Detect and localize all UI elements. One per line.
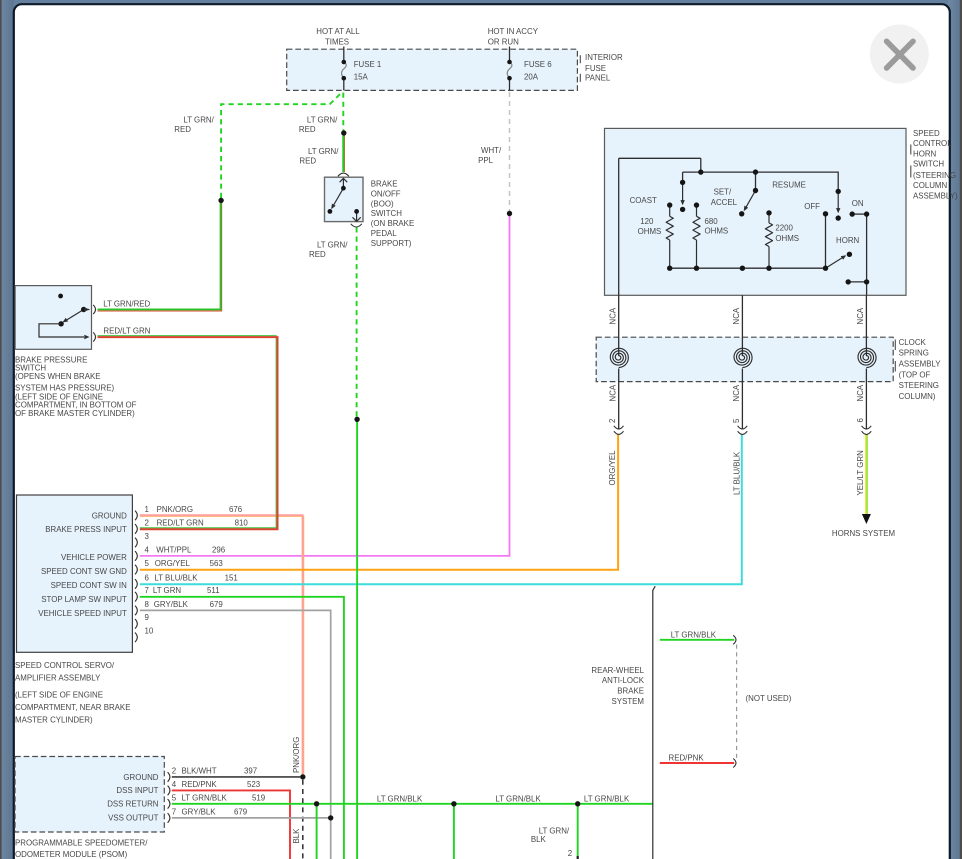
- svg-text:PNK/ORG: PNK/ORG: [292, 737, 301, 773]
- svg-text:NCA: NCA: [856, 307, 865, 324]
- svg-text:(OPENS WHEN BRAKE: (OPENS WHEN BRAKE: [15, 372, 101, 381]
- svg-text:COAST: COAST: [630, 196, 657, 205]
- svg-text:PNK/ORG: PNK/ORG: [157, 505, 193, 514]
- svg-text:NCA: NCA: [608, 307, 617, 324]
- svg-text:(LEFT SIDE OF ENGINE: (LEFT SIDE OF ENGINE: [15, 690, 103, 699]
- svg-text:6: 6: [145, 573, 150, 582]
- svg-text:GROUND: GROUND: [123, 773, 158, 782]
- svg-text:SPEED CONT SW IN: SPEED CONT SW IN: [51, 581, 127, 590]
- svg-text:ANTI-LOCK: ANTI-LOCK: [602, 676, 645, 685]
- svg-text:YEL/LT GRN: YEL/LT GRN: [856, 450, 865, 496]
- svg-text:SPEED CONT SW GND: SPEED CONT SW GND: [41, 567, 127, 576]
- svg-text:GRY/BLK: GRY/BLK: [154, 600, 189, 609]
- svg-text:RESUME: RESUME: [772, 180, 806, 189]
- svg-text:COLUMN: COLUMN: [913, 181, 947, 190]
- svg-text:151: 151: [225, 573, 238, 582]
- svg-text:523: 523: [247, 780, 261, 789]
- svg-text:SUPPORT): SUPPORT): [371, 239, 412, 248]
- svg-text:RED: RED: [174, 125, 191, 134]
- svg-text:RED: RED: [309, 250, 326, 259]
- svg-text:5: 5: [145, 559, 150, 568]
- svg-text:HORNS SYSTEM: HORNS SYSTEM: [832, 529, 895, 538]
- svg-text:3: 3: [145, 532, 150, 541]
- svg-text:20A: 20A: [524, 72, 539, 81]
- svg-text:FUSE 1: FUSE 1: [354, 60, 382, 69]
- svg-text:LT GRN/BLK: LT GRN/BLK: [495, 794, 541, 803]
- svg-text:4: 4: [145, 545, 150, 554]
- svg-text:LT GRN/BLK: LT GRN/BLK: [377, 794, 423, 803]
- svg-text:(STEERING: (STEERING: [913, 171, 956, 180]
- svg-text:NCA: NCA: [732, 384, 741, 401]
- svg-text:SWITCH: SWITCH: [371, 209, 402, 218]
- svg-text:15A: 15A: [354, 72, 369, 81]
- svg-text:679: 679: [234, 807, 248, 816]
- svg-text:VSS OUTPUT: VSS OUTPUT: [108, 814, 159, 823]
- svg-text:ON/OFF: ON/OFF: [371, 189, 401, 198]
- svg-text:511: 511: [207, 586, 220, 595]
- svg-text:4: 4: [172, 780, 177, 789]
- svg-text:LT GRN/: LT GRN/: [539, 827, 570, 836]
- svg-text:MASTER CYLINDER): MASTER CYLINDER): [15, 715, 93, 724]
- svg-text:BLK: BLK: [292, 828, 301, 844]
- svg-text:FUSE 6: FUSE 6: [524, 60, 552, 69]
- svg-text:CONTROL: CONTROL: [913, 139, 952, 148]
- svg-text:9: 9: [145, 613, 150, 622]
- svg-text:COMPARTMENT, NEAR BRAKE: COMPARTMENT, NEAR BRAKE: [15, 703, 130, 712]
- svg-text:680: 680: [705, 217, 719, 226]
- svg-text:VEHICLE POWER: VEHICLE POWER: [61, 553, 127, 562]
- svg-text:LT GRN/: LT GRN/: [317, 241, 348, 250]
- svg-text:RED/PNK: RED/PNK: [182, 780, 218, 789]
- svg-text:LT BLU/BLK: LT BLU/BLK: [732, 451, 741, 495]
- svg-text:BLK/WHT: BLK/WHT: [182, 766, 217, 775]
- svg-text:BRAKE: BRAKE: [371, 180, 398, 189]
- svg-text:679: 679: [210, 600, 224, 609]
- svg-text:NCA: NCA: [608, 384, 617, 401]
- svg-text:HOT IN ACCY: HOT IN ACCY: [488, 27, 539, 36]
- svg-text:(ON BRAKE: (ON BRAKE: [371, 219, 414, 228]
- svg-text:NCA: NCA: [732, 307, 741, 324]
- svg-text:(TOP OF: (TOP OF: [899, 370, 931, 379]
- svg-text:(BOO): (BOO): [371, 199, 394, 208]
- svg-text:RED/PNK: RED/PNK: [669, 754, 705, 763]
- svg-text:ORG/YEL: ORG/YEL: [155, 559, 191, 568]
- svg-text:SET/: SET/: [714, 187, 732, 196]
- svg-text:ON: ON: [852, 199, 864, 208]
- svg-text:1: 1: [145, 505, 149, 514]
- svg-text:COLUMN): COLUMN): [899, 392, 936, 401]
- svg-text:8: 8: [145, 600, 150, 609]
- svg-text:676: 676: [229, 505, 243, 514]
- svg-text:PANEL: PANEL: [585, 74, 611, 83]
- svg-text:2: 2: [568, 849, 572, 858]
- svg-text:STOP LAMP SW INPUT: STOP LAMP SW INPUT: [41, 595, 127, 604]
- svg-text:RED: RED: [299, 125, 316, 134]
- svg-text:SPEED CONTROL SERVO/: SPEED CONTROL SERVO/: [15, 661, 115, 670]
- svg-text:OHMS: OHMS: [775, 234, 799, 243]
- svg-text:GRY/BLK: GRY/BLK: [182, 807, 217, 816]
- svg-text:6: 6: [856, 418, 865, 423]
- svg-text:LT GRN: LT GRN: [153, 586, 182, 595]
- svg-text:563: 563: [210, 559, 224, 568]
- svg-text:AMPLIFIER ASSEMBLY: AMPLIFIER ASSEMBLY: [15, 673, 101, 682]
- svg-text:WHT/PPL: WHT/PPL: [156, 545, 192, 554]
- svg-text:OHMS: OHMS: [638, 227, 662, 236]
- svg-text:LT GRN/BLK: LT GRN/BLK: [584, 795, 630, 804]
- svg-text:LT GRN/: LT GRN/: [307, 116, 338, 125]
- svg-text:5: 5: [732, 418, 741, 423]
- svg-text:PPL: PPL: [478, 156, 494, 165]
- svg-text:OFF: OFF: [804, 202, 820, 211]
- svg-text:VEHICLE SPEED INPUT: VEHICLE SPEED INPUT: [38, 609, 127, 618]
- svg-text:HOT AT ALL: HOT AT ALL: [316, 27, 360, 36]
- svg-text:FUSE: FUSE: [585, 64, 606, 73]
- svg-text:OR RUN: OR RUN: [488, 37, 519, 46]
- svg-text:LT BLU/BLK: LT BLU/BLK: [154, 573, 198, 582]
- svg-text:HORN: HORN: [836, 236, 860, 245]
- svg-text:OHMS: OHMS: [705, 227, 729, 236]
- svg-text:LT GRN/BLK: LT GRN/BLK: [182, 793, 228, 802]
- svg-text:NCA: NCA: [856, 384, 865, 401]
- svg-text:RED/LT GRN: RED/LT GRN: [103, 327, 150, 336]
- svg-text:ASSEMBLY: ASSEMBLY: [899, 360, 942, 369]
- svg-text:CLOCK: CLOCK: [899, 338, 927, 347]
- svg-text:10: 10: [145, 627, 154, 636]
- svg-text:7: 7: [172, 807, 176, 816]
- svg-text:5: 5: [172, 793, 177, 802]
- svg-text:DSS INPUT: DSS INPUT: [116, 786, 158, 795]
- svg-text:LT GRN/RED: LT GRN/RED: [103, 299, 150, 308]
- svg-text:ODOMETER MODULE (PSOM): ODOMETER MODULE (PSOM): [15, 850, 128, 859]
- svg-text:PEDAL: PEDAL: [371, 229, 397, 238]
- svg-text:RED: RED: [299, 156, 316, 165]
- svg-text:296: 296: [212, 545, 226, 554]
- svg-text:GROUND: GROUND: [92, 512, 127, 521]
- svg-text:OF BRAKE MASTER CYLINDER): OF BRAKE MASTER CYLINDER): [15, 409, 135, 418]
- svg-text:SYSTEM: SYSTEM: [612, 697, 644, 706]
- svg-text:INTERIOR: INTERIOR: [585, 53, 623, 62]
- svg-text:ORG/YEL: ORG/YEL: [608, 450, 617, 486]
- svg-text:7: 7: [145, 586, 149, 595]
- svg-text:SWITCH: SWITCH: [913, 160, 944, 169]
- svg-text:(NOT USED): (NOT USED): [746, 694, 792, 703]
- svg-text:BRAKE: BRAKE: [617, 687, 644, 696]
- svg-text:2: 2: [608, 419, 617, 423]
- svg-text:2: 2: [145, 518, 149, 527]
- svg-text:LT GRN/: LT GRN/: [308, 147, 339, 156]
- svg-text:2: 2: [172, 766, 176, 775]
- svg-text:397: 397: [244, 766, 257, 775]
- svg-text:REAR-WHEEL: REAR-WHEEL: [591, 666, 644, 675]
- svg-text:ASSEMBLY): ASSEMBLY): [913, 191, 958, 200]
- svg-text:BRAKE PRESS INPUT: BRAKE PRESS INPUT: [45, 525, 127, 534]
- svg-text:519: 519: [252, 793, 266, 802]
- svg-text:PROGRAMMABLE SPEEDOMETER/: PROGRAMMABLE SPEEDOMETER/: [15, 839, 148, 848]
- svg-text:RED/LT GRN: RED/LT GRN: [157, 518, 204, 527]
- svg-text:810: 810: [235, 518, 249, 527]
- svg-text:DSS RETURN: DSS RETURN: [107, 800, 159, 809]
- svg-text:2200: 2200: [775, 224, 793, 233]
- svg-text:SPRING: SPRING: [899, 349, 929, 358]
- svg-text:WHT/: WHT/: [481, 146, 502, 155]
- svg-text:120: 120: [640, 217, 654, 226]
- svg-text:BLK: BLK: [531, 835, 547, 844]
- svg-text:STEERING: STEERING: [899, 381, 939, 390]
- svg-text:LT GRN/BLK: LT GRN/BLK: [671, 630, 717, 639]
- svg-text:HORN: HORN: [913, 149, 937, 158]
- svg-text:SPEED: SPEED: [913, 129, 940, 138]
- svg-text:TIMES: TIMES: [325, 37, 349, 46]
- svg-text:LT GRN/: LT GRN/: [183, 116, 214, 125]
- svg-text:ACCEL: ACCEL: [711, 198, 738, 207]
